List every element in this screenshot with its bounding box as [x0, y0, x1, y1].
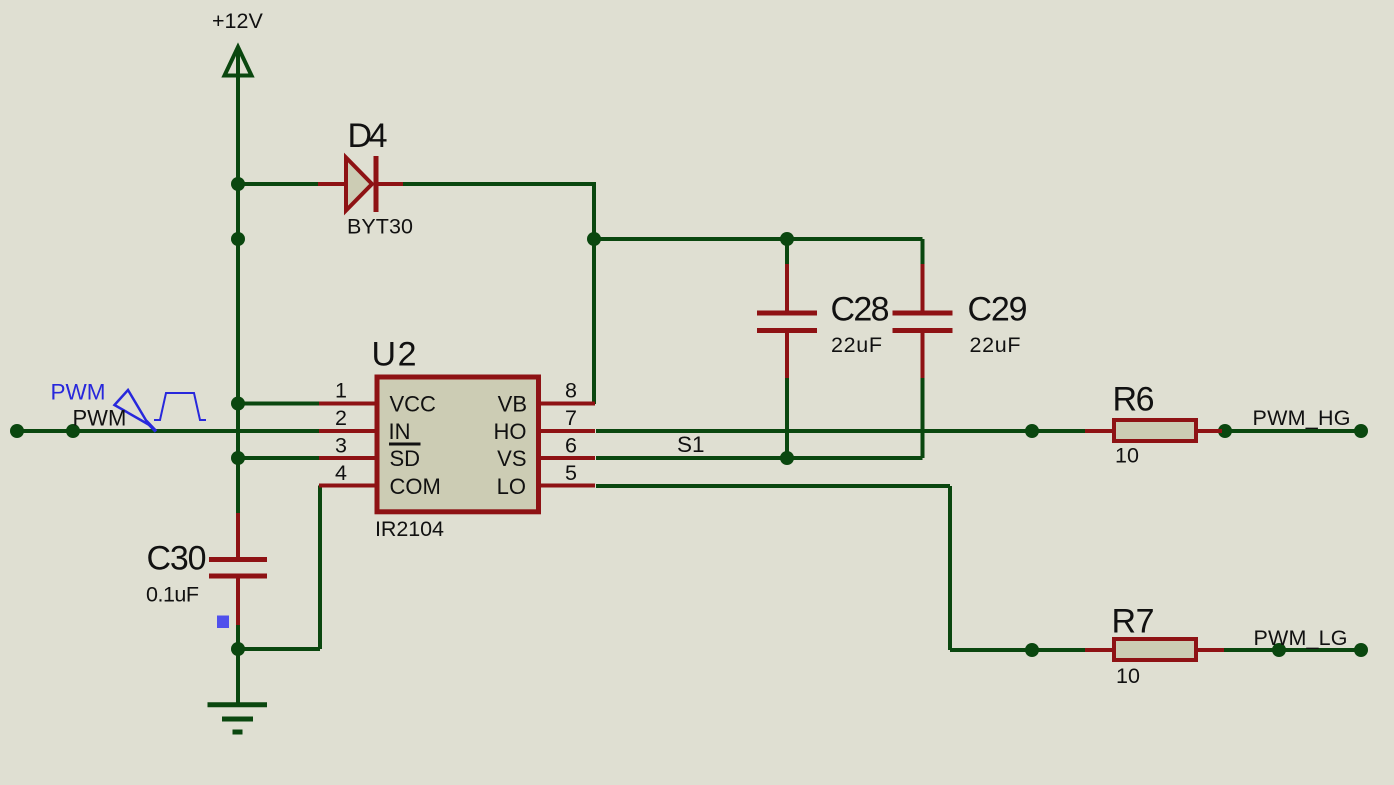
svg-text:22uF: 22uF [831, 333, 882, 357]
svg-text:0.1uF: 0.1uF [146, 583, 199, 607]
svg-text:22uF: 22uF [970, 333, 1021, 357]
svg-text:C29: C29 [968, 291, 1028, 329]
svg-text:2: 2 [335, 406, 347, 430]
svg-text:VB: VB [498, 392, 527, 417]
svg-text:3: 3 [335, 434, 347, 458]
svg-text:PWM: PWM [73, 406, 127, 431]
svg-text:10: 10 [1115, 444, 1139, 468]
svg-text:1: 1 [335, 379, 347, 403]
svg-text:COM: COM [390, 474, 441, 499]
svg-text:S1: S1 [677, 432, 705, 457]
svg-text:7: 7 [565, 406, 577, 430]
svg-text:VS: VS [497, 446, 526, 471]
svg-text:8: 8 [565, 379, 577, 403]
svg-text:5: 5 [565, 461, 577, 485]
svg-text:6: 6 [565, 434, 577, 458]
svg-text:VCC: VCC [390, 392, 437, 417]
svg-text:R6: R6 [1113, 381, 1155, 419]
svg-text:D4: D4 [348, 117, 388, 155]
svg-text:LO: LO [497, 474, 526, 499]
svg-text:PWM_LG: PWM_LG [1254, 626, 1348, 650]
svg-text:U2: U2 [372, 336, 417, 374]
svg-text:SD: SD [390, 446, 421, 471]
svg-text:C30: C30 [147, 540, 207, 578]
svg-text:10: 10 [1116, 664, 1140, 688]
svg-text:IN: IN [389, 419, 411, 444]
svg-text:4: 4 [335, 461, 347, 485]
svg-text:IR2104: IR2104 [375, 517, 444, 541]
svg-text:PWM_HG: PWM_HG [1253, 406, 1351, 430]
svg-text:BYT30: BYT30 [347, 215, 413, 239]
svg-text:R7: R7 [1112, 603, 1155, 641]
svg-text:HO: HO [494, 419, 527, 444]
svg-text:C28: C28 [831, 291, 890, 329]
svg-text:+12V: +12V [212, 9, 263, 33]
svg-text:PWM: PWM [51, 380, 106, 405]
